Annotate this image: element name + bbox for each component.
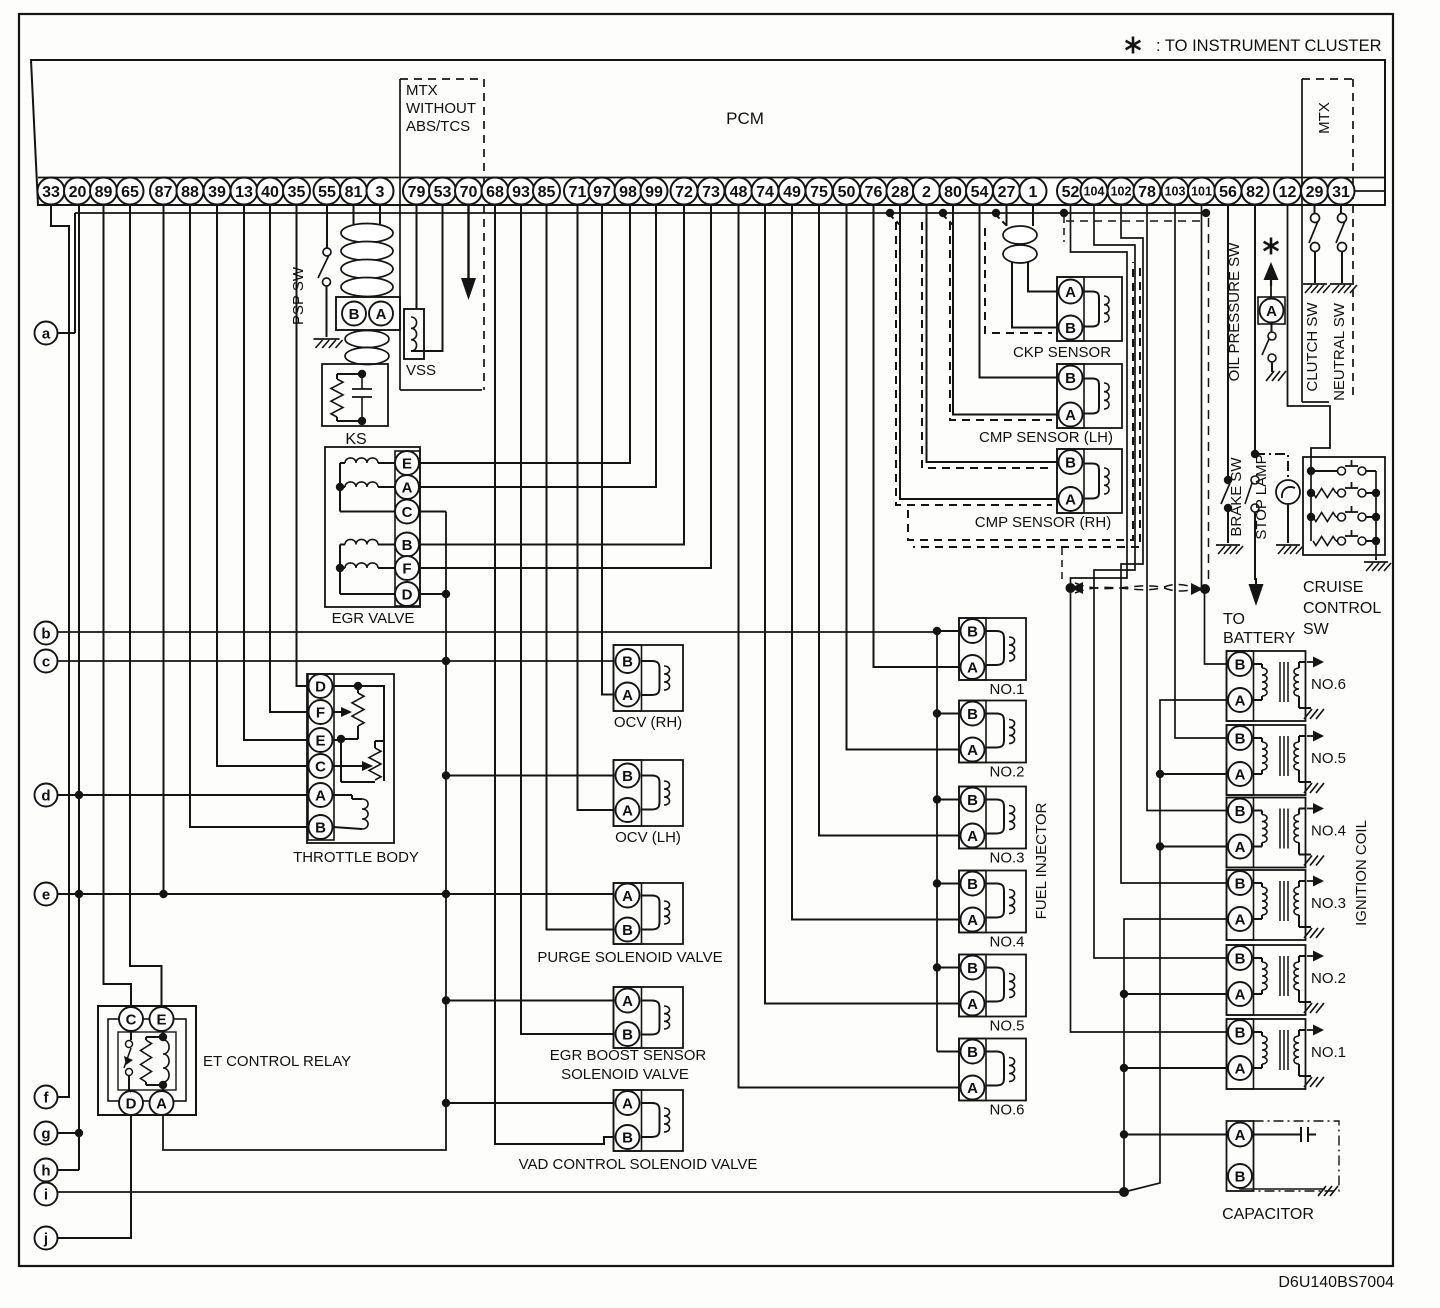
svg-text:STOP LAMP: STOP LAMP [1253, 454, 1270, 539]
ignition coil NO.5 spark output arrow [1307, 735, 1315, 737]
svg-text:A: A [156, 1096, 167, 1113]
CKP pin B [1059, 316, 1083, 340]
wire injector NO.2 pin B from supply bus [937, 713, 959, 715]
svg-text:NEUTRAL SW: NEUTRAL SW [1331, 302, 1348, 401]
PCM box outline [31, 60, 1385, 205]
throttle body pin A [309, 783, 333, 807]
EGR valve pin D [395, 582, 419, 606]
wire pin79 to VSS [416, 205, 418, 309]
PCM pin 27 [993, 178, 1020, 205]
BRAKE SW ground [1216, 544, 1240, 546]
OCV LH pin B [616, 764, 640, 788]
PCM pin 71 [564, 178, 591, 205]
relay pin C [119, 1007, 143, 1031]
wire EGR pin C to main relay bus [420, 511, 446, 513]
svg-text:54: 54 [971, 184, 989, 201]
node b bus to fuel injector supply [58, 631, 938, 633]
EGR valve pin A [395, 475, 419, 499]
KS sensor box [322, 364, 388, 426]
fuel injector NO.3 box [959, 787, 1026, 849]
OCV RH coil [642, 661, 660, 695]
injector NO.1 pin A [961, 655, 985, 679]
KS internal resistor [331, 379, 343, 417]
svg-text:NO.4: NO.4 [1311, 823, 1346, 840]
svg-text:CLUTCH SW: CLUTCH SW [1304, 302, 1321, 392]
node h circle [35, 1159, 58, 1182]
junction dots on shield bus [886, 209, 894, 217]
shield dashed line CMP RH pair B [922, 222, 1052, 468]
svg-text:49: 49 [783, 184, 801, 201]
PCM pin 55 [314, 178, 341, 205]
wire pin39 to throttle body pin C [217, 205, 308, 766]
shield dashed line CMP RH pair A [896, 222, 1052, 505]
svg-text:IGNITION COIL: IGNITION COIL [1353, 820, 1370, 926]
injector NO.1 coil [986, 631, 1004, 665]
svg-text:B: B [622, 768, 633, 785]
svg-text:BATTERY: BATTERY [1223, 630, 1296, 647]
wire pin 78 to ignition coil NO.4 pin B [1147, 205, 1227, 811]
svg-text:b: b [41, 626, 50, 643]
svg-text:d: d [41, 788, 50, 805]
ignition coil NO.5 transformer [1254, 737, 1263, 739]
svg-text:39: 39 [208, 184, 226, 201]
svg-text:68: 68 [486, 184, 504, 201]
throttle body pin E [309, 728, 333, 752]
BRAKE SW switch [1224, 476, 1232, 484]
twist junction dot left [1066, 583, 1076, 593]
svg-text:A: A [967, 828, 978, 845]
ignition coil NO.4 box [1227, 798, 1306, 868]
PCM pin 72 [671, 178, 698, 205]
wire node g stub [58, 1132, 80, 1134]
injector NO.5 pin B [961, 956, 985, 980]
PCM pin 88 [177, 178, 204, 205]
wire injector NO.6 pin A to pin 48 [739, 205, 960, 1088]
ignition coil NO.6 box [1227, 651, 1306, 721]
TO BATTERY arrow [1249, 584, 1264, 606]
EGR boost sensor solenoid valve box [614, 987, 684, 1048]
throttle body pin B [309, 815, 333, 839]
injector NO.3 pin B [961, 788, 985, 812]
wire pin 52 to ignition coil NO.1 pin B (jogs around sensor shield) [1071, 205, 1227, 1032]
svg-text:12: 12 [1279, 184, 1297, 201]
MTX WITHOUT ABS/TCS dashed option box [399, 79, 401, 390]
PCM pin 70 [455, 178, 482, 205]
VAD pin B [616, 1125, 640, 1149]
svg-text:D: D [126, 1096, 137, 1113]
svg-text:A: A [622, 687, 633, 704]
relay pin E [150, 1007, 174, 1031]
svg-text:B: B [1235, 1025, 1246, 1042]
svg-text:j: j [43, 1231, 48, 1248]
junction dot d row [75, 791, 83, 799]
PCM pin 31 [1328, 178, 1355, 205]
OCV RH pin B [616, 649, 640, 673]
relay pin A [150, 1091, 174, 1115]
PSP SW switch contacts [323, 248, 331, 256]
wire node h to pin20 vertical [58, 1169, 80, 1171]
svg-text:65: 65 [121, 184, 139, 201]
svg-text:i: i [44, 1187, 48, 1204]
ignition coil NO.1 pin B [1228, 1020, 1252, 1044]
CLUTCH SW ground [1303, 283, 1327, 285]
svg-text:A: A [402, 480, 413, 497]
svg-text:A: A [967, 912, 978, 929]
EGR valve pin C [395, 500, 419, 524]
wire pin88 to throttle body pin B [190, 205, 308, 827]
stub line right of pin 31 [1355, 190, 1384, 192]
EGR boost coil [642, 1001, 660, 1035]
main relay supply bus vertical x446 [163, 512, 446, 1151]
svg-text:OCV (RH): OCV (RH) [614, 714, 682, 731]
wire VAD pin A from relay bus [446, 1102, 614, 1104]
wire pin33 to node a and down to node f [51, 205, 69, 1097]
throttle body outer box [307, 674, 394, 843]
ignition coil NO.2 pin A [1228, 982, 1252, 1006]
throttle internal coil [362, 799, 368, 829]
PCM pin 52 [1057, 178, 1084, 205]
wire stop lamp switch to battery arrow [1254, 512, 1256, 580]
ignition coil NO.2 transformer [1254, 957, 1263, 959]
injector NO.3 coil [986, 800, 1004, 834]
svg-text:e: e [42, 887, 50, 904]
ignition coil NO.1 box [1227, 1019, 1306, 1089]
purge coil [642, 896, 660, 930]
ignition coil NO.1 pin A [1228, 1056, 1252, 1080]
CLUTCH SW contacts [1311, 214, 1320, 223]
wire injector NO.3 pin A to pin 75 [819, 205, 959, 836]
svg-text:27: 27 [998, 184, 1016, 201]
wire OCV RH pin A to pin 97 [602, 205, 614, 695]
shield bus dashed segment under band [1066, 220, 1200, 222]
svg-text:B: B [1235, 951, 1246, 968]
injector NO.6 pin B [961, 1040, 985, 1064]
ignition coil NO.3 ground [1304, 928, 1312, 938]
relay internal resistor [141, 1040, 152, 1082]
svg-text:A: A [967, 1080, 978, 1097]
svg-text:79: 79 [408, 184, 426, 201]
shield pigtail dashes at bus dots [890, 215, 902, 227]
cruise control ground [1375, 558, 1377, 560]
injector NO.1 pin B [961, 619, 985, 643]
PCM pin 1 [1020, 178, 1047, 205]
cruise control right rail [1375, 471, 1377, 558]
PSP SW ground [314, 338, 340, 340]
svg-text:B: B [967, 706, 978, 723]
svg-text:A: A [315, 788, 326, 805]
PCM pin 81 [340, 178, 367, 205]
wire pin65 to relay pin E [130, 205, 162, 1007]
svg-text:A: A [1065, 492, 1076, 509]
svg-text:NO.1: NO.1 [989, 681, 1024, 698]
junction dot e row [75, 890, 83, 898]
svg-text:CMP SENSOR (RH): CMP SENSOR (RH) [975, 514, 1111, 531]
capacitor connector box [1227, 1121, 1254, 1191]
svg-text:B: B [1235, 657, 1246, 674]
wire VAD pin B to pin 68 [495, 205, 614, 1144]
EGR boost pin B [616, 1022, 640, 1046]
STOP LAMP ground [1276, 544, 1300, 546]
wire injector NO.1 pin A to pin 76 [874, 205, 960, 667]
svg-text:OCV (LH): OCV (LH) [615, 829, 681, 846]
svg-text:NO.2: NO.2 [989, 764, 1024, 781]
ignition coil NO.2 box [1227, 945, 1306, 1015]
relay internal switch [118, 1032, 176, 1090]
svg-text:82: 82 [1246, 184, 1264, 201]
svg-text:CMP SENSOR (LH): CMP SENSOR (LH) [979, 429, 1113, 446]
PCM pin 28 [887, 178, 914, 205]
PCM pin 29 [1301, 178, 1328, 205]
wire OCV LH pin A to pin 71 [578, 205, 614, 810]
svg-text:87: 87 [155, 184, 173, 201]
svg-text:NO.6: NO.6 [989, 1102, 1024, 1119]
fuel injector NO.1 box [959, 618, 1026, 680]
PCM connector band top line [38, 177, 1385, 179]
wires pins 81 and 3 into shielded cable to KS [353, 205, 355, 224]
svg-text:E: E [402, 456, 412, 473]
ignition coil NO.3 box [1227, 870, 1306, 940]
ignition coil NO.4 pin B [1228, 799, 1252, 823]
wire EGR pin D to main relay bus [420, 593, 446, 595]
twisted shield crossover dashes [1075, 583, 1198, 591]
CKP sensor box [1057, 277, 1122, 341]
injector NO.6 pin A [961, 1076, 985, 1100]
PURGE solenoid valve box [614, 883, 684, 944]
wire pin89 to relay pin C [104, 205, 132, 1007]
PCM pin 97 [589, 178, 616, 205]
EGR valve outer box [325, 447, 420, 607]
shield dashed line CKP pair [985, 228, 1052, 333]
wire EGR pin A to pin 99 [420, 205, 656, 487]
CMP RH pin B [1059, 450, 1083, 474]
capacitor pin B [1228, 1164, 1252, 1188]
PCM pin 104 [1081, 178, 1108, 205]
PCM pin 35 [283, 178, 310, 205]
wire pin 28 to CMP RH pin A [900, 205, 1057, 499]
svg-text:BRAKE SW: BRAKE SW [1228, 457, 1245, 537]
cruise control switch row 4 [1313, 537, 1336, 546]
VSS sensor box [404, 309, 424, 359]
svg-text:74: 74 [756, 184, 774, 201]
PCM pin 2 [913, 178, 940, 205]
PCM pin 48 [725, 178, 752, 205]
wire twisted pair to CKP pin A [1028, 262, 1057, 292]
svg-text:CRUISE: CRUISE [1303, 579, 1363, 596]
wire injector NO.3 pin B from supply bus [937, 799, 959, 801]
header asterisk marker [1132, 37, 1135, 54]
PCM pin 68 [482, 178, 509, 205]
svg-text:NO.2: NO.2 [1311, 970, 1346, 987]
CMP RH pin A [1059, 487, 1083, 511]
OCV RH pin A [616, 683, 640, 707]
svg-text:A: A [622, 1096, 633, 1113]
svg-text:13: 13 [235, 184, 253, 201]
ignition coil NO.6 ground [1304, 709, 1312, 719]
PCM pin 82 [1242, 178, 1269, 205]
svg-text:B: B [1065, 320, 1076, 337]
cruise control switch row 1 [1311, 470, 1336, 472]
junction dots on supply bus [442, 590, 450, 598]
svg-text:PURGE SOLENOID VALVE: PURGE SOLENOID VALVE [537, 949, 722, 966]
CMP LH pin A [1059, 403, 1083, 427]
PCM pin 50 [833, 178, 860, 205]
shield dash line along pin 52 wire [1063, 216, 1065, 242]
svg-text:A: A [1235, 839, 1246, 856]
VAD control solenoid valve box [614, 1090, 684, 1151]
svg-text:29: 29 [1306, 184, 1324, 201]
svg-text:B: B [349, 306, 360, 323]
svg-text:93: 93 [512, 184, 530, 201]
svg-text:E: E [156, 1012, 166, 1029]
ignition coil NO.3 spark output arrow [1307, 880, 1315, 882]
ignition coil NO.5 pin B [1228, 726, 1252, 750]
svg-text:2: 2 [922, 184, 931, 201]
svg-text:56: 56 [1219, 184, 1237, 201]
svg-text:h: h [41, 1163, 50, 1180]
svg-text:A: A [1235, 912, 1246, 929]
ignition coil NO.4 spark output arrow [1307, 808, 1315, 810]
wire injector NO.4 pin A to pin 49 [792, 205, 959, 920]
outer dashed shield box around sensors [908, 262, 1133, 540]
node f circle [35, 1086, 58, 1109]
svg-text:a: a [42, 326, 51, 343]
PCM pin 98 [615, 178, 642, 205]
wire OCV LH pin B from relay bus [446, 775, 614, 777]
wire node a to shield bus [58, 332, 76, 334]
svg-text:MTX: MTX [406, 82, 438, 99]
capacitor pin A [1228, 1123, 1252, 1147]
svg-text:FUEL INJECTOR: FUEL INJECTOR [1033, 802, 1050, 919]
wire EGR pin E to pin 98 [420, 205, 630, 463]
svg-text:A: A [622, 993, 633, 1010]
PCM pin 102 [1108, 178, 1135, 205]
svg-text:PSP SW: PSP SW [290, 266, 307, 325]
svg-text:: TO INSTRUMENT CLUSTER: : TO INSTRUMENT CLUSTER [1156, 37, 1382, 55]
PCM pin 85 [533, 178, 560, 205]
svg-text:WITHOUT: WITHOUT [406, 100, 476, 117]
wire injector NO.5 pin A to pin 74 [765, 205, 959, 1004]
svg-text:B: B [967, 876, 978, 893]
node a circle [35, 322, 58, 345]
PCM pin 12 [1274, 178, 1301, 205]
throttle body pin C [309, 754, 333, 778]
purge pin B [616, 918, 640, 942]
PCM pin 78 [1134, 178, 1161, 205]
PCM pin 40 [257, 178, 284, 205]
injector NO.5 coil [986, 968, 1004, 1002]
VSS coil [411, 317, 417, 351]
ignition coil common bus left (NO.3 NO.2 NO.1 pins A) [1124, 919, 1227, 1192]
svg-text:B: B [1235, 1169, 1246, 1186]
svg-text:F: F [402, 561, 411, 578]
fuel injector supply bus from node b [936, 632, 938, 1052]
wire purge pin B to pin 85 [547, 205, 614, 930]
cruise control switch row 2 [1313, 489, 1336, 498]
throttle internal potentiometer 2 [337, 735, 345, 743]
svg-text:KS: KS [345, 431, 366, 448]
svg-text:A: A [1235, 767, 1246, 784]
svg-text:98: 98 [619, 184, 637, 201]
node i circle [35, 1183, 58, 1206]
node d circle [35, 784, 58, 807]
injector NO.3 pin A [961, 824, 985, 848]
svg-text:55: 55 [318, 184, 336, 201]
shield bus from node a across top (y213) [75, 212, 1206, 214]
ignition coil NO.6 pin A [1228, 688, 1252, 712]
PCM pin 73 [698, 178, 725, 205]
svg-text:B: B [622, 1130, 633, 1147]
OIL PRESSURE SW connector pin A [1258, 297, 1285, 324]
svg-text:PCM: PCM [726, 109, 764, 128]
svg-text:A: A [967, 742, 978, 759]
wire injector NO.6 pin B from supply bus [937, 1051, 959, 1053]
stop lamp to ground [1287, 504, 1289, 543]
PCM pin 76 [860, 178, 887, 205]
fuel injector NO.5 box [959, 955, 1026, 1017]
ignition coil NO.1 spark output arrow [1307, 1029, 1315, 1031]
svg-text:89: 89 [95, 184, 113, 201]
svg-text:EGR BOOST SENSOR: EGR BOOST SENSOR [550, 1047, 707, 1064]
svg-text:78: 78 [1138, 184, 1156, 201]
svg-text:MTX: MTX [1316, 102, 1333, 134]
svg-text:C: C [315, 759, 326, 776]
svg-text:50: 50 [838, 184, 856, 201]
svg-text:SW: SW [1303, 621, 1330, 638]
svg-text:35: 35 [288, 184, 306, 201]
NEUTRAL SW contacts [1338, 214, 1347, 223]
twist junction dot right [1200, 584, 1210, 594]
PCM pin 80 [940, 178, 967, 205]
cruise control switch row 3 [1313, 513, 1336, 522]
svg-text:102: 102 [1111, 185, 1132, 199]
svg-text:E: E [315, 733, 325, 750]
capacitor element and dash-dot outline [1254, 1121, 1340, 1191]
CRUISE CONTROL SW box [1303, 457, 1385, 555]
CKP pin A [1059, 280, 1083, 304]
svg-text:85: 85 [538, 184, 556, 201]
wire injector NO.5 pin B from supply bus [937, 967, 959, 969]
wire pin 29 to clutch switch [1314, 205, 1316, 214]
svg-text:NO.6: NO.6 [1311, 676, 1346, 693]
svg-text:A: A [1266, 303, 1277, 320]
PCM pin 103 [1162, 178, 1189, 205]
node c circle [35, 650, 58, 673]
wire pin 56 to brake switch [1227, 205, 1229, 480]
fuel injector NO.4 box [959, 871, 1026, 933]
svg-text:B: B [1065, 370, 1076, 387]
KS internal wires and junction dots [337, 373, 362, 375]
node c bus to relay bus and OCV RH pin B [58, 660, 614, 662]
OIL PRESSURE SW asterisk [1270, 238, 1273, 255]
wire pin 54 to CMP LH pin B [980, 205, 1058, 378]
PCM pin 79 [403, 178, 430, 205]
CMP sensor RH box [1057, 449, 1122, 513]
PCM pin 87 [150, 178, 177, 205]
EGR valve coil group 1 [345, 458, 378, 463]
svg-text:A: A [967, 996, 978, 1013]
svg-text:20: 20 [69, 184, 87, 201]
wire node d bus to throttle body pin A [58, 794, 309, 796]
wire relay pin D to node j [58, 1115, 132, 1238]
svg-text:D6U140BS7004: D6U140BS7004 [1278, 1274, 1394, 1291]
PSP SW wire to ground [326, 286, 328, 337]
STOP LAMP switch contacts [1251, 476, 1259, 484]
svg-text:B: B [1235, 731, 1246, 748]
wire pin 12 to cruise control switch [1288, 205, 1331, 457]
CMP LH pin B [1059, 366, 1083, 390]
OIL PRESSURE SW ground [1266, 371, 1274, 381]
ignition coil NO.1 transformer [1254, 1031, 1263, 1033]
